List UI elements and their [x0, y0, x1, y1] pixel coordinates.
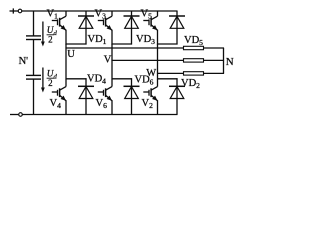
- wire: load V to neutral N: [204, 59, 225, 61]
- wire: bottom DC rail: [22, 114, 177, 116]
- transistor V5: [143, 11, 157, 45]
- wire: jog connecting VD5 to V5 emitter: [157, 43, 178, 45]
- transistor V2: [143, 79, 157, 115]
- wire: load W to neutral N: [204, 72, 225, 74]
- svg-text:2: 2: [48, 35, 53, 45]
- svg-text:V6: V6: [96, 98, 108, 110]
- wire: phase W output line: [157, 72, 184, 74]
- diode VD5: [169, 11, 185, 45]
- wire: lower capacitor to - rail: [33, 79, 35, 114]
- wire: + rail to upper capacitor: [33, 11, 35, 36]
- svg-text:VD2: VD2: [181, 78, 200, 90]
- svg-text:V2: V2: [142, 98, 154, 110]
- negative DC terminal -: [10, 113, 22, 117]
- transistor V4: [52, 79, 66, 115]
- label Ud/2 (lower): [47, 69, 58, 89]
- svg-text:V: V: [104, 55, 112, 66]
- capacitor C1 (upper, Ud/2): [26, 36, 41, 40]
- wire: phase V output line: [111, 59, 183, 61]
- label Ud/2 (upper): [47, 25, 58, 45]
- load resistor phase W: [184, 72, 204, 75]
- wire: jog connecting VD1 to V1 emitter: [65, 43, 86, 45]
- wire: jog connecting V6 collector to VD6: [111, 78, 132, 80]
- wire: top DC rail: [22, 10, 178, 12]
- voltage arrow Ud/2 (upper): [41, 22, 45, 47]
- wire: jog connecting V4 collector to VD4: [65, 78, 86, 80]
- capacitor C2 (lower, Ud/2): [26, 75, 41, 79]
- wire: phase U output line: [65, 47, 183, 49]
- transistor V1: [52, 11, 66, 45]
- svg-text:V1: V1: [47, 9, 59, 21]
- diode VD4: [78, 78, 94, 114]
- svg-text:N': N': [19, 56, 29, 67]
- wire: capacitor midpoint N' link: [33, 40, 35, 76]
- voltage arrow Ud/2 (lower): [41, 68, 45, 93]
- wire: jog connecting V2 collector to VD2: [157, 78, 178, 80]
- diode VD6: [124, 78, 140, 114]
- svg-text:VD3: VD3: [136, 34, 155, 46]
- transistor V6: [98, 79, 112, 115]
- wire: neutral bus N (right vertical): [223, 48, 225, 73]
- wire: leg W midsection: [157, 44, 159, 79]
- diode VD2: [169, 78, 185, 114]
- transistor V3: [98, 11, 112, 45]
- load resistor phase U: [184, 46, 204, 49]
- diode VD3: [124, 11, 140, 45]
- svg-text:VD4: VD4: [87, 74, 106, 86]
- svg-text:N: N: [226, 56, 234, 68]
- wire: leg U midsection: [65, 44, 67, 79]
- svg-text:W: W: [146, 68, 156, 79]
- load resistor phase V: [184, 59, 204, 62]
- svg-text:V5: V5: [141, 9, 153, 21]
- svg-text:VD1: VD1: [88, 34, 107, 46]
- wire: leg V midsection: [111, 44, 113, 79]
- svg-text:U: U: [67, 49, 75, 60]
- svg-text:2: 2: [48, 78, 53, 88]
- svg-text:V3: V3: [95, 9, 107, 21]
- svg-text:VD5: VD5: [184, 35, 203, 47]
- wire: jog connecting VD3 to V3 emitter: [111, 43, 132, 45]
- positive DC terminal +: [10, 8, 22, 13]
- svg-text:V4: V4: [50, 98, 62, 110]
- wire: load U to neutral N: [204, 47, 225, 49]
- diode VD1: [78, 11, 94, 45]
